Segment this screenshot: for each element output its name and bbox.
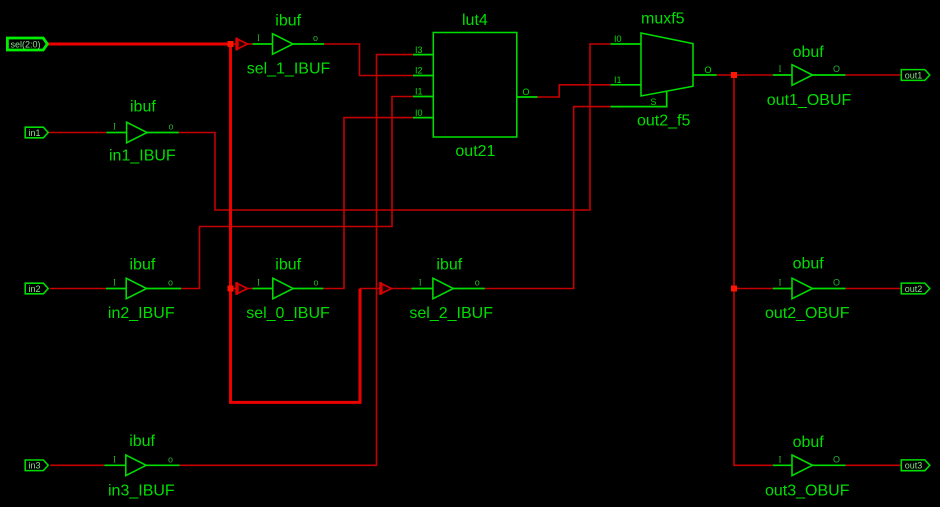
svg-text:I0: I0 [415,108,423,118]
svg-text:ibuf: ibuf [275,257,301,274]
svg-text:in3_IBUF: in3_IBUF [108,483,175,500]
svg-text:O: O [833,64,840,74]
svg-text:out1: out1 [905,70,923,80]
svg-text:O: O [523,87,530,97]
svg-text:ibuf: ibuf [129,433,155,450]
svg-text:O: O [705,65,712,75]
svg-text:I: I [419,278,422,288]
svg-text:I: I [113,454,116,464]
svg-text:in3: in3 [28,461,40,471]
svg-text:ibuf: ibuf [275,13,301,30]
svg-text:o: o [168,278,173,288]
svg-text:in1_IBUF: in1_IBUF [109,148,176,165]
svg-text:I: I [779,454,782,464]
svg-text:I: I [257,278,260,288]
svg-text:obuf: obuf [793,44,825,61]
svg-text:obuf: obuf [793,434,825,451]
svg-text:I: I [257,33,260,43]
svg-text:sel_0_IBUF: sel_0_IBUF [246,305,330,322]
svg-text:out3_OBUF: out3_OBUF [765,483,850,500]
svg-text:I: I [113,278,116,288]
svg-text:I1: I1 [415,87,423,97]
svg-text:out3: out3 [905,461,923,471]
svg-text:O: O [833,454,840,464]
svg-text:ibuf: ibuf [130,98,156,115]
svg-text:obuf: obuf [793,255,825,272]
svg-text:out2_OBUF: out2_OBUF [765,305,850,322]
svg-text:in2: in2 [28,284,40,294]
svg-text:I1: I1 [614,75,622,85]
svg-text:I2: I2 [415,66,423,76]
svg-text:in1: in1 [28,128,40,138]
svg-text:sel_2_IBUF: sel_2_IBUF [409,305,493,322]
svg-text:muxf5: muxf5 [641,11,685,28]
svg-text:out1_OBUF: out1_OBUF [767,92,852,109]
svg-text:ibuf: ibuf [130,257,156,274]
svg-text:o: o [169,122,174,132]
svg-text:I: I [113,122,116,132]
svg-text:out2: out2 [905,284,923,294]
svg-text:O: O [833,278,840,288]
svg-text:o: o [313,33,318,43]
svg-text:I: I [779,278,782,288]
svg-text:ibuf: ibuf [436,257,462,274]
svg-text:o: o [314,278,319,288]
svg-text:I0: I0 [614,34,622,44]
svg-text:o: o [168,454,173,464]
svg-text:sel(2:0): sel(2:0) [10,39,40,49]
svg-text:o: o [475,278,480,288]
svg-text:out21: out21 [455,143,495,160]
svg-text:lut4: lut4 [462,12,488,29]
svg-text:I3: I3 [415,45,423,55]
svg-text:I: I [779,64,782,74]
svg-text:sel_1_IBUF: sel_1_IBUF [247,60,331,77]
svg-text:S: S [650,97,656,107]
svg-text:out2_f5: out2_f5 [637,113,690,130]
svg-text:in2_IBUF: in2_IBUF [108,305,175,322]
